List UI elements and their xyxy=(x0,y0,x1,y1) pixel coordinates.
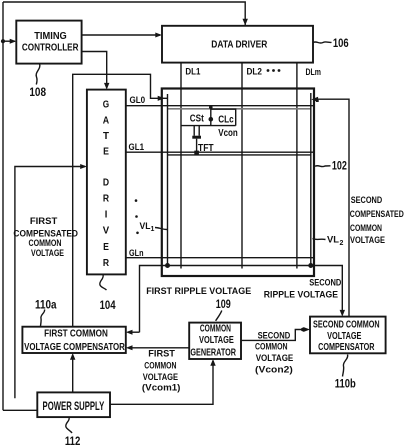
svg-text:CSt: CSt xyxy=(190,114,205,125)
wire: gate line GLn xyxy=(126,257,313,259)
svg-text:102: 102 xyxy=(332,159,347,173)
svg-text:VOLTAGE COMPENSATOR: VOLTAGE COMPENSATOR xyxy=(24,342,125,353)
svg-text:D: D xyxy=(103,177,109,188)
svg-text:109: 109 xyxy=(216,297,231,311)
wire: gate line GL1 xyxy=(126,151,313,153)
svg-text:FIRST COMMON: FIRST COMMON xyxy=(44,328,108,339)
svg-text:SECOND: SECOND xyxy=(351,195,383,206)
leader squiggle for 102 xyxy=(315,165,331,168)
first common voltage compensator box 110a xyxy=(22,327,125,353)
wire: common line row 1 xyxy=(168,154,312,156)
svg-text:VL: VL xyxy=(327,235,340,245)
text: FIRST COMPENSATED COMMON VOLTAGE xyxy=(13,216,78,259)
arrow into VL1 xyxy=(158,96,165,101)
arrow into comp1 right (first ripple) xyxy=(126,330,133,335)
leader squiggle for 109 xyxy=(216,311,222,321)
timing controller box 108 xyxy=(16,21,81,64)
node: TFT junction xyxy=(194,151,199,155)
leader squiggle for 106 xyxy=(313,42,332,43)
wire: data line DLm xyxy=(296,63,298,269)
svg-text:VOLTAGE: VOLTAGE xyxy=(327,331,361,342)
svg-text:VOLTAGE: VOLTAGE xyxy=(199,335,234,346)
svg-text:SECOND: SECOND xyxy=(258,331,291,342)
text: SECOND COMPENSATED COMMON VOLTAGE xyxy=(350,195,404,246)
svg-text:G: G xyxy=(103,100,110,111)
pixel: CLc loop (common electrode loop) xyxy=(211,109,236,125)
svg-text:GL1: GL1 xyxy=(129,142,145,152)
svg-text:SECOND: SECOND xyxy=(309,278,341,289)
svg-text:POWER SUPPLY: POWER SUPPLY xyxy=(43,399,105,413)
text: SECOND COMMON VOLTAGE (Vcon2) xyxy=(255,331,294,376)
svg-text:COMPENSATOR: COMPENSATOR xyxy=(318,342,375,353)
svg-text:COMMON: COMMON xyxy=(200,323,231,334)
data driver box 106 xyxy=(162,26,313,63)
arrow into timing controller left xyxy=(10,39,17,44)
wire: power to gate driver left xyxy=(15,167,85,399)
svg-text:DL1: DL1 xyxy=(185,66,201,77)
svg-text:110a: 110a xyxy=(35,297,57,311)
wire: power supply to comp1 bottom xyxy=(72,355,74,392)
svg-text:E: E xyxy=(103,242,109,253)
wire: second compensated common voltage feed (comp2 top to VL2) xyxy=(318,99,350,316)
svg-text:RIPPLE VOLTAGE: RIPPLE VOLTAGE xyxy=(264,290,339,301)
wire: timing controller to data driver xyxy=(82,34,160,36)
label VL2 with leader xyxy=(313,239,326,240)
arrow into gate driver left xyxy=(80,164,87,169)
svg-text:VOLTAGE: VOLTAGE xyxy=(256,353,294,364)
arrow into comp2 top (second ripple) xyxy=(340,310,345,317)
svg-text:(Vcom1): (Vcom1) xyxy=(142,383,181,394)
arrow into data driver top xyxy=(243,19,248,26)
svg-text:GL0: GL0 xyxy=(129,95,145,105)
leader squiggle for 110a xyxy=(41,310,45,327)
wire: branch into timing controller xyxy=(3,40,15,42)
svg-text:(Vcon2): (Vcon2) xyxy=(255,365,293,376)
svg-text:DL2: DL2 xyxy=(246,66,262,77)
svg-text:FIRST: FIRST xyxy=(30,216,58,227)
node: bus-VL1 junction xyxy=(165,263,170,268)
wire: generator to comp1 (Vcom1) xyxy=(128,347,189,349)
svg-text:R: R xyxy=(103,258,110,269)
wire: common voltage line VL1 xyxy=(167,94,169,266)
wire: power loop left vertical xyxy=(2,2,4,410)
second common voltage compensator box 110b xyxy=(310,317,386,354)
node on pixel connector xyxy=(209,117,214,122)
svg-text:GENERATOR: GENERATOR xyxy=(190,347,236,358)
svg-text:CONTROLLER: CONTROLLER xyxy=(22,43,79,54)
leader squiggle for 108 xyxy=(36,64,40,85)
svg-text:COMPENSATED: COMPENSATED xyxy=(350,209,404,220)
svg-text:FIRST: FIRST xyxy=(148,349,175,360)
wire: gate line GL0 xyxy=(126,105,313,107)
svg-text:COMMON: COMMON xyxy=(255,341,288,352)
LCD panel box 102 xyxy=(162,89,314,277)
svg-text:106: 106 xyxy=(333,36,349,50)
wire: first compensated common voltage feed (comp1 top to VL1) xyxy=(73,74,162,326)
common voltage generator box 109 xyxy=(189,323,241,359)
gate driver box 104 xyxy=(87,90,126,275)
arrow into gate driver top xyxy=(104,83,109,90)
svg-text:T: T xyxy=(103,131,109,142)
svg-text:DATA DRIVER: DATA DRIVER xyxy=(211,39,267,50)
arrow into VL2 xyxy=(311,97,318,102)
node: bus-VL2 junction xyxy=(308,263,313,268)
wire: ripple into comp1 xyxy=(128,331,140,333)
svg-text:A: A xyxy=(103,116,109,127)
vertical ellipsis dots left of VL1 xyxy=(135,199,138,202)
arrow into comp1 right (Vcom1) xyxy=(126,345,133,350)
svg-text:1: 1 xyxy=(151,226,155,233)
svg-text:108: 108 xyxy=(29,85,46,99)
leader squiggle for 104 xyxy=(100,275,107,290)
power supply box 112 xyxy=(37,392,110,417)
svg-text:VOLTAGE: VOLTAGE xyxy=(350,235,385,246)
wire: timing controller to gate driver xyxy=(82,52,107,89)
wire: common bus at panel bottom xyxy=(140,266,343,333)
svg-text:VOLTAGE: VOLTAGE xyxy=(31,248,64,259)
svg-text:DLm: DLm xyxy=(305,67,321,78)
wire: generator to comp2 (Vcon2) xyxy=(241,330,308,341)
svg-text:VL: VL xyxy=(140,221,152,231)
arrow into generator bottom xyxy=(210,359,215,366)
svg-text:CLc: CLc xyxy=(218,114,234,125)
arrow into comp2 left xyxy=(303,327,310,332)
wire: common line row 0 (grey) xyxy=(168,108,312,110)
svg-text:TIMING: TIMING xyxy=(34,31,67,42)
arrow into comp1 bottom xyxy=(70,353,75,360)
wire: power supply left to loop xyxy=(3,409,37,411)
leader squiggle for 110b xyxy=(343,355,348,377)
svg-text:COMMON: COMMON xyxy=(350,223,382,234)
node: junction on left vertical at timing controller branch xyxy=(1,39,5,43)
svg-text:SECOND COMMON: SECOND COMMON xyxy=(313,320,380,331)
capacitor CSt symbol xyxy=(194,126,199,136)
svg-text:112: 112 xyxy=(65,434,81,446)
svg-text:110b: 110b xyxy=(335,377,356,391)
pixel: lower rail from DL1 xyxy=(181,125,236,127)
svg-text:TFT: TFT xyxy=(198,143,214,154)
svg-text:FIRST RIPPLE VOLTAGE: FIRST RIPPLE VOLTAGE xyxy=(146,286,252,297)
node on Vcon2 wire xyxy=(301,328,305,332)
wire: data line DL1 xyxy=(180,63,182,269)
text: FIRST COMMON VOLTAGE (Vcom1) xyxy=(142,349,181,394)
svg-text:104: 104 xyxy=(100,298,116,312)
svg-text:Vcon: Vcon xyxy=(218,128,238,139)
svg-text:2: 2 xyxy=(340,240,344,247)
wire: power supply to generator bottom xyxy=(110,361,213,404)
pixel: vertical connector with node xyxy=(210,109,212,126)
wire: CSt stem to TFT on GL1 xyxy=(196,139,198,153)
svg-text:COMMON: COMMON xyxy=(144,361,176,372)
dots between DL2 and DLm xyxy=(267,69,270,72)
wire: common voltage line VL2 xyxy=(310,93,312,266)
svg-text:R: R xyxy=(103,194,110,205)
wire: data line DL2 xyxy=(241,63,243,269)
svg-text:I: I xyxy=(105,210,108,221)
leader squiggle for 112 xyxy=(66,417,72,433)
wire: power loop top horizontal to data driver xyxy=(3,2,245,26)
svg-text:V: V xyxy=(103,226,110,237)
svg-text:GLn: GLn xyxy=(129,248,144,258)
svg-text:E: E xyxy=(103,146,109,157)
arrow into data driver left xyxy=(155,33,162,38)
